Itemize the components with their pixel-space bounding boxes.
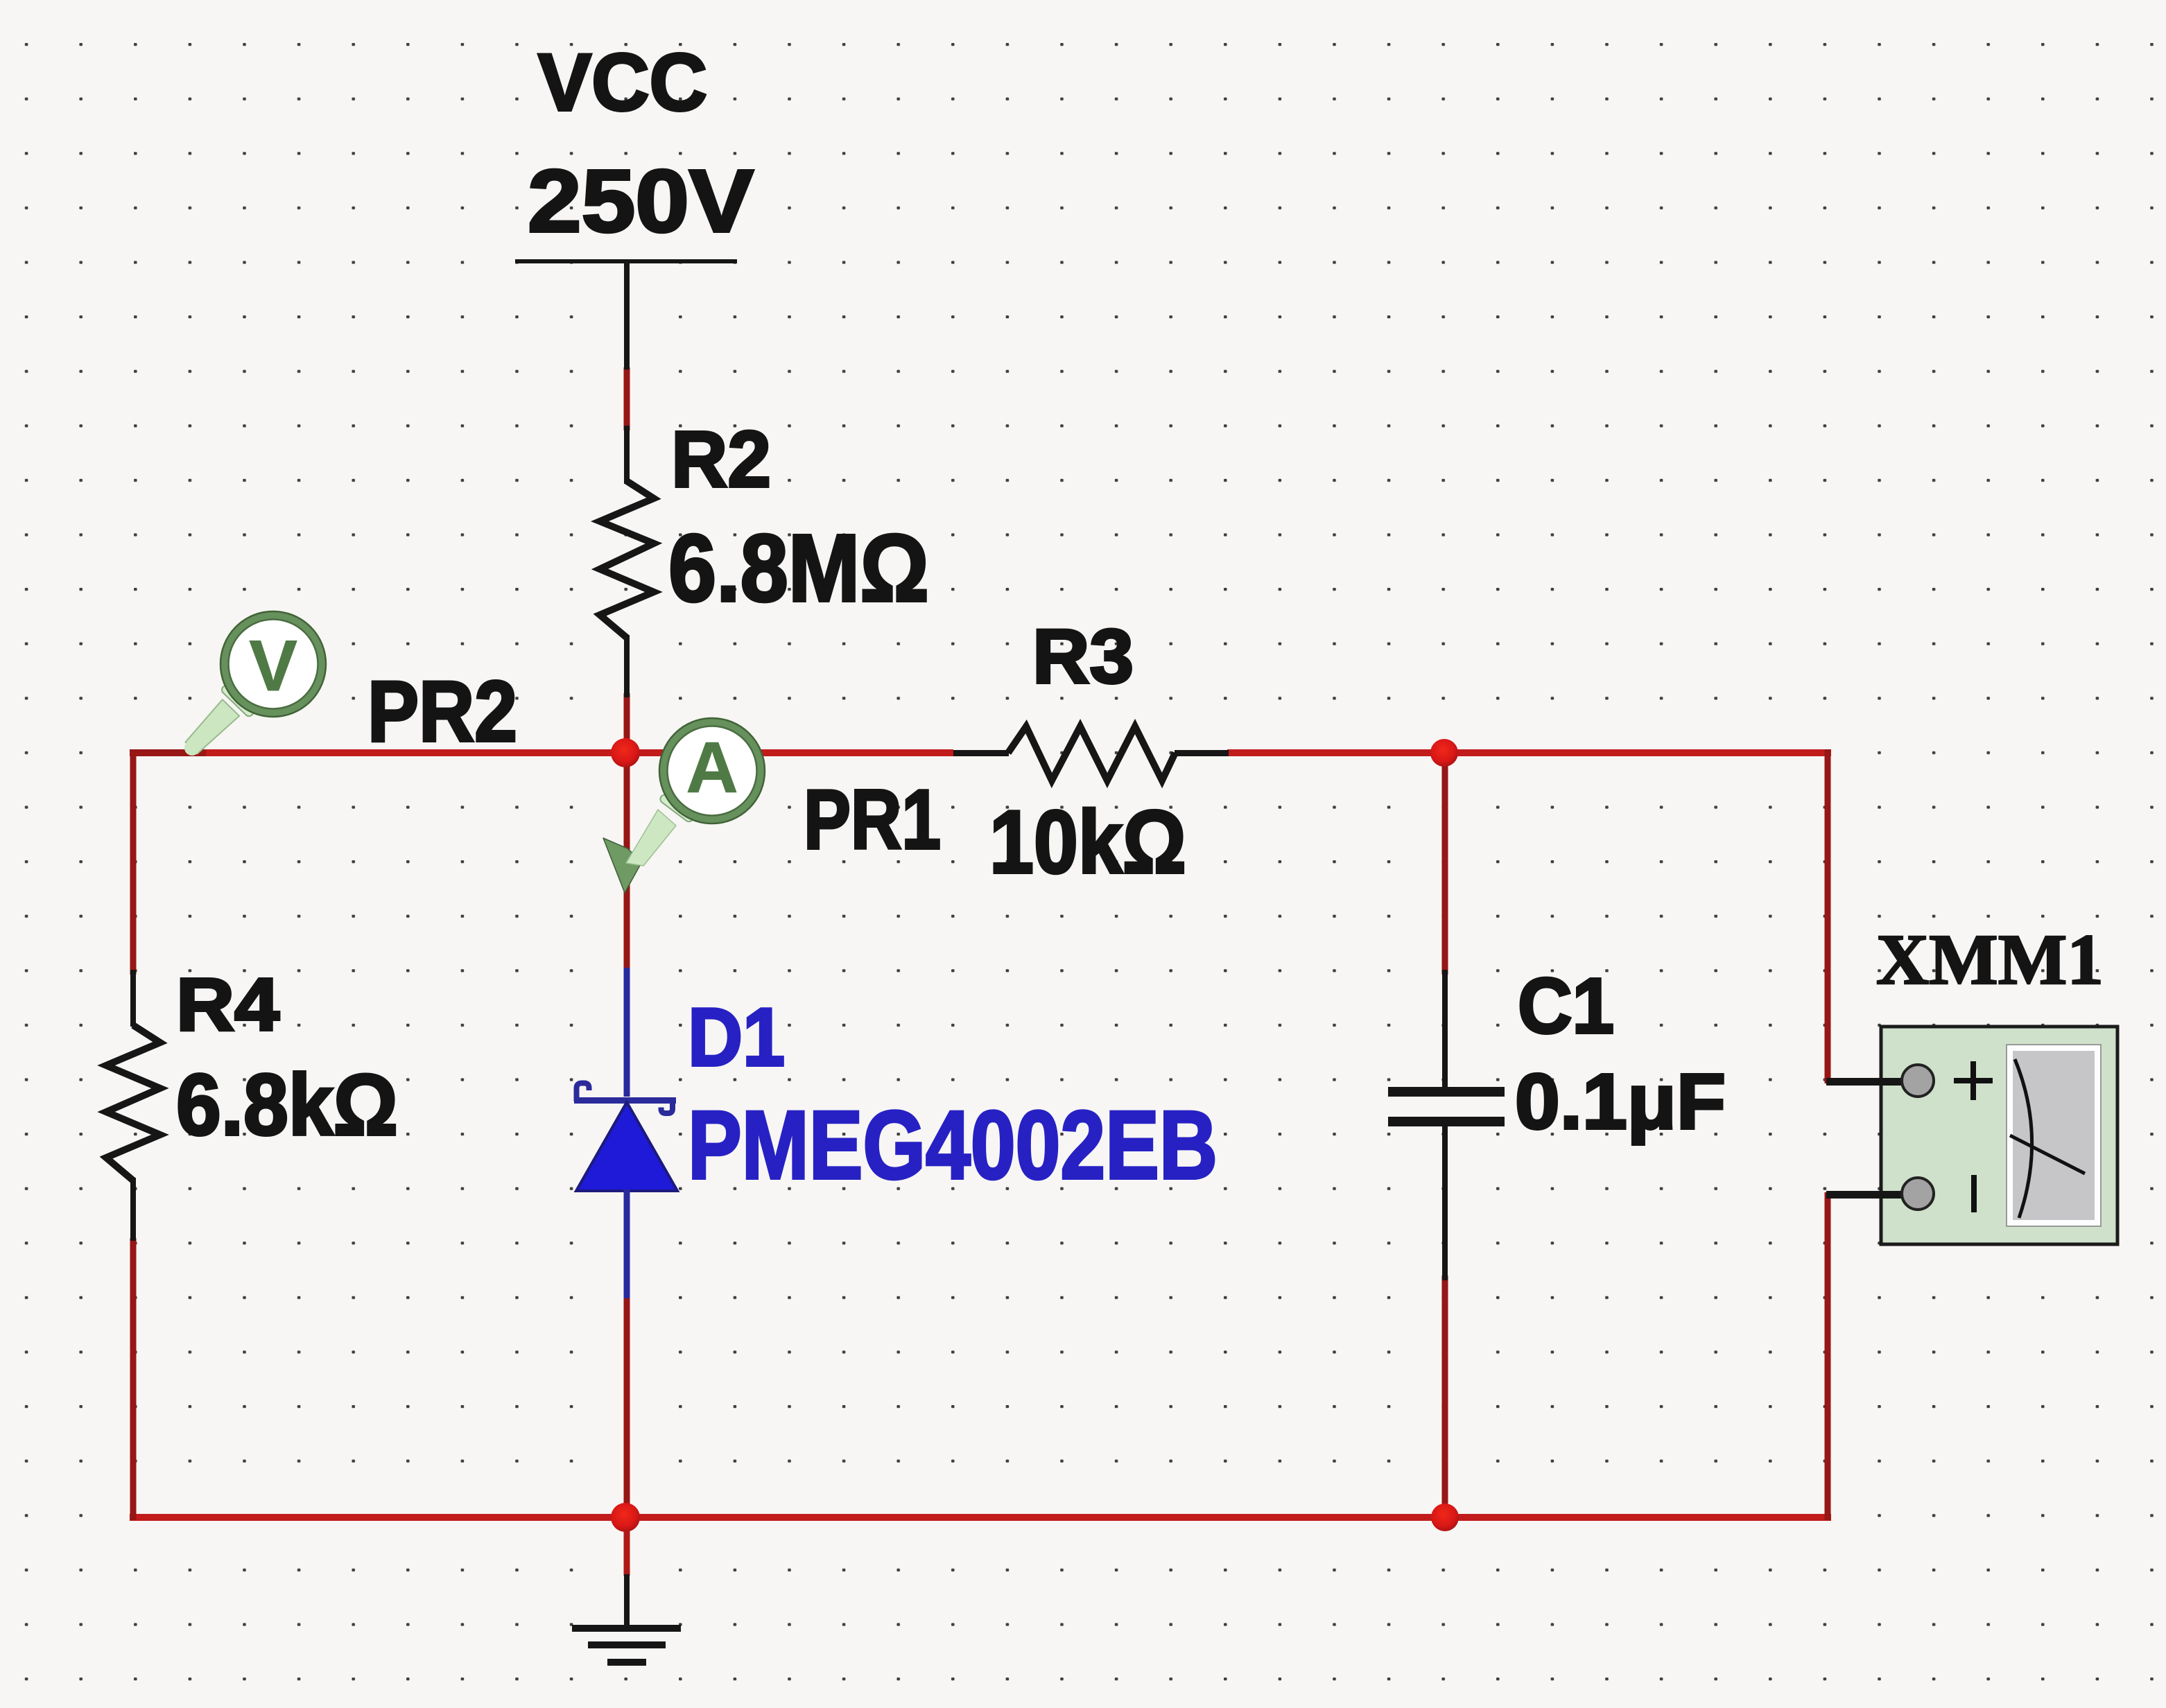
svg-text:0.1μF: 0.1μF: [1515, 1058, 1726, 1145]
svg-text:R4: R4: [176, 962, 279, 1046]
svg-text:PMEG4002EB: PMEG4002EB: [688, 1090, 1218, 1199]
svg-text:PR1: PR1: [804, 772, 941, 866]
svg-text:V: V: [249, 626, 297, 706]
svg-text:A: A: [686, 728, 738, 808]
svg-text:XMM1: XMM1: [1876, 920, 2104, 1000]
svg-text:C1: C1: [1518, 962, 1614, 1049]
svg-text:6.8MΩ: 6.8MΩ: [668, 515, 929, 622]
svg-text:D1: D1: [688, 991, 785, 1083]
svg-text:250V: 250V: [528, 152, 754, 251]
svg-text:10kΩ: 10kΩ: [989, 792, 1186, 892]
svg-text:VCC: VCC: [538, 37, 707, 128]
svg-text:PR2: PR2: [367, 664, 517, 760]
svg-text:R2: R2: [671, 415, 771, 504]
svg-text:6.8kΩ: 6.8kΩ: [176, 1057, 398, 1153]
svg-text:R3: R3: [1032, 614, 1134, 699]
